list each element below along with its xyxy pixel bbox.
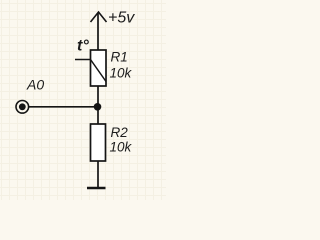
svg-text:R2: R2 [111,125,129,140]
wire from R1 bottom to node [97,86,99,107]
svg-text:R1: R1 [111,50,128,65]
svg-text:+5v: +5v [108,10,135,27]
svg-text:10k: 10k [110,66,133,81]
ground [87,187,106,190]
label A0 [26,77,44,93]
junction node [94,103,102,111]
wire from +5v arrow to R1 top [97,13,99,51]
label R2 [111,125,129,140]
svg-text:t°: t° [77,37,89,54]
value 10k (R1) [110,66,133,81]
wire from R2 bottom to ground [97,161,99,188]
label t° [77,37,89,54]
thermistor R1 [75,50,106,86]
wire from A0 terminal to node [29,106,98,108]
svg-text:A0: A0 [26,77,44,93]
power +5v arrow [91,12,107,22]
resistor R2 [91,124,106,161]
terminal A0 [16,101,29,114]
label R1 [111,50,128,65]
svg-text:10k: 10k [110,140,133,155]
label +5v [108,10,135,27]
value 10k (R2) [110,140,133,155]
wire from node to R2 top [97,107,99,124]
